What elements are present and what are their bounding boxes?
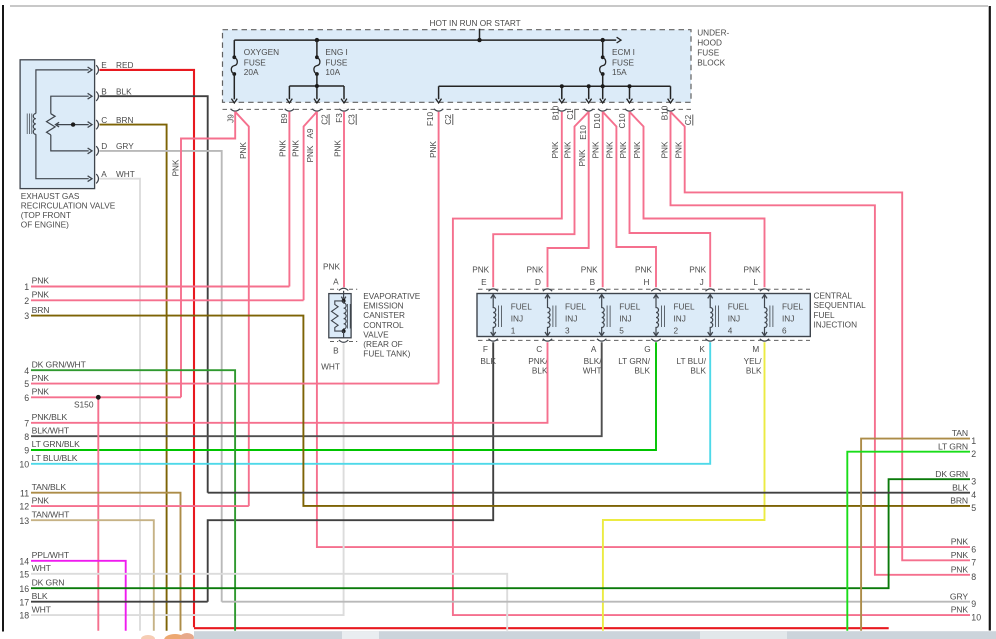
connector F10 C2 <box>434 109 443 111</box>
svg-text:J: J <box>700 278 704 287</box>
svg-text:3: 3 <box>565 327 570 336</box>
svg-text:15A: 15A <box>612 68 627 77</box>
photo finger blob 2 <box>164 634 186 639</box>
svg-text:HOOD: HOOD <box>697 39 722 48</box>
connector injector top pin J <box>706 289 715 291</box>
label PNK A9 <box>306 145 315 162</box>
svg-text:CANISTER: CANISTER <box>363 311 405 320</box>
taskbar light patch 1 <box>342 631 379 639</box>
svg-text:BLK: BLK <box>952 482 968 492</box>
connector EVAP A <box>339 288 348 290</box>
wire BLK left row 17 <box>31 601 208 603</box>
label F3 <box>335 113 344 123</box>
EGR pin C connector <box>96 120 98 129</box>
EVAP coil <box>344 301 347 331</box>
EVAP internal feed arrow <box>343 291 345 299</box>
svg-text:2: 2 <box>971 449 976 459</box>
junction eng T <box>315 84 319 88</box>
svg-text:PPL/WHT: PPL/WHT <box>32 550 70 560</box>
svg-text:INJ: INJ <box>565 315 577 324</box>
svg-text:PNK: PNK <box>951 564 969 574</box>
wire PNK J9 left branch <box>181 112 235 398</box>
svg-text:C: C <box>536 345 542 354</box>
page right border line <box>989 6 991 631</box>
svg-text:PNK: PNK <box>32 373 50 383</box>
wire WHT left row 15 <box>31 574 507 631</box>
svg-text:B10: B10 <box>551 105 560 120</box>
connector injector bottom pin C <box>543 339 552 341</box>
svg-text:PNK/: PNK/ <box>528 357 548 366</box>
label A9 <box>306 128 315 138</box>
svg-text:FUEL: FUEL <box>814 311 836 320</box>
wire TAN/BLK left row 11 <box>31 493 181 631</box>
wire PNK to injector B <box>602 112 604 287</box>
svg-text:F: F <box>483 345 488 354</box>
svg-text:D: D <box>101 142 107 151</box>
svg-text:FUSE: FUSE <box>612 59 635 68</box>
wire BLK/WHT injector A to row8 <box>31 342 602 436</box>
svg-text:FUSE: FUSE <box>325 59 348 68</box>
connector injector top pin E <box>489 289 498 291</box>
wire BRN from EGR C <box>100 125 167 631</box>
EVAP internal wire to B <box>343 331 345 338</box>
svg-text:PNK: PNK <box>635 266 652 275</box>
svg-text:9: 9 <box>971 599 976 609</box>
svg-text:TAN/WHT: TAN/WHT <box>32 509 71 519</box>
svg-text:A: A <box>333 278 339 287</box>
junction ECM I on bus <box>601 38 605 42</box>
svg-text:E10: E10 <box>579 125 588 140</box>
svg-text:HOT IN RUN OR START: HOT IN RUN OR START <box>430 19 521 28</box>
svg-text:6: 6 <box>24 393 29 403</box>
svg-text:13: 13 <box>19 516 29 526</box>
wire RED from EGR E <box>100 70 195 627</box>
svg-text:B9: B9 <box>280 113 289 123</box>
EGR pin D connector <box>96 146 98 155</box>
svg-text:PNK: PNK <box>32 387 50 397</box>
svg-text:PNK: PNK <box>278 140 287 157</box>
taskbar <box>194 631 996 639</box>
svg-text:J9: J9 <box>226 114 235 123</box>
svg-text:INJ: INJ <box>511 315 523 324</box>
svg-text:7: 7 <box>971 558 976 568</box>
connector injector top pin B <box>597 289 606 291</box>
svg-text:PNK: PNK <box>172 159 181 176</box>
EGR pin A connector <box>96 174 98 183</box>
svg-text:B: B <box>333 347 339 356</box>
svg-text:PNK: PNK <box>323 263 340 272</box>
svg-text:PNK: PNK <box>551 141 560 158</box>
label PNK b10c1 <box>551 141 560 158</box>
label PNK b10 diag <box>674 141 683 158</box>
EGR transformer core bars <box>27 114 32 135</box>
label PNK injH <box>606 141 615 158</box>
svg-text:PNK/BLK: PNK/BLK <box>32 412 68 422</box>
connector J9 <box>231 109 240 111</box>
svg-text:PNK: PNK <box>951 605 969 615</box>
svg-text:FUEL: FUEL <box>565 303 587 312</box>
fuel injector 6 coil <box>762 294 773 336</box>
connector row dashed line <box>223 108 692 110</box>
wire BLK injector F <box>208 342 494 601</box>
connector B10 C1 <box>557 109 566 111</box>
junction ecm T fuse <box>601 84 605 88</box>
svg-text:8: 8 <box>24 432 29 442</box>
svg-text:PNK: PNK <box>32 276 50 286</box>
label PNK F10 <box>429 141 438 158</box>
connector B10 C2 <box>666 109 675 111</box>
svg-text:BLK: BLK <box>32 591 48 601</box>
connector C2 engine <box>312 109 321 111</box>
wire hot feed stub <box>479 29 481 40</box>
EGR valve box <box>20 60 95 189</box>
svg-text:PNK: PNK <box>619 141 628 158</box>
wire PNK S150 drop <box>97 397 99 630</box>
connector injector bottom pin G <box>651 339 660 341</box>
svg-text:C: C <box>101 116 107 125</box>
wire PNK F3 to EVAP A <box>343 112 345 287</box>
under-hood fuse block box <box>223 30 692 103</box>
wire PNK C10 diag to injector L <box>630 112 765 287</box>
svg-text:15: 15 <box>19 569 29 579</box>
svg-text:BLK: BLK <box>116 88 132 97</box>
wire PPL/WHT left row 14 <box>31 561 126 631</box>
svg-text:INJ: INJ <box>619 315 631 324</box>
wire PNK/BLK injector C to row7 <box>31 342 548 423</box>
label B10 second <box>660 105 669 120</box>
CSFI box <box>477 294 810 337</box>
svg-text:INJ: INJ <box>674 315 686 324</box>
svg-text:F10: F10 <box>426 111 435 126</box>
junction ENG I on bus <box>315 38 319 42</box>
svg-text:ECM I: ECM I <box>612 48 635 57</box>
wire PNK left row 6 <box>31 396 181 398</box>
EVAP core bars <box>347 304 350 329</box>
wire PNK to injector H <box>603 112 656 287</box>
wire ecm fuse stem bottom and T-bar <box>439 74 671 86</box>
svg-text:C2: C2 <box>684 114 693 125</box>
label PNK c10 <box>619 141 628 158</box>
wire PNK left row 1 <box>31 286 289 288</box>
EGR internal wire pin B to resistor <box>51 96 89 114</box>
wire PNK C10 to injector J <box>630 112 711 287</box>
wire BRN left row 3 to right row 5 <box>31 316 970 506</box>
junction ecm T b10 <box>560 84 564 88</box>
svg-text:FUEL: FUEL <box>728 303 750 312</box>
wire PNK left row 2 <box>31 299 304 301</box>
wire ecm T drops <box>439 86 671 99</box>
svg-text:(REAR OF: (REAR OF <box>363 340 402 349</box>
wire RED bottom run <box>194 627 889 629</box>
label B10 c1 <box>551 105 560 120</box>
connector injector bottom pin A <box>597 339 606 341</box>
wire DK GRN/WHT left row 4 <box>31 370 235 631</box>
svg-text:PNK: PNK <box>239 142 248 159</box>
svg-text:LT BLU/BLK: LT BLU/BLK <box>32 453 78 463</box>
svg-text:A: A <box>101 170 107 179</box>
EVAP bottom junction dot <box>342 329 346 333</box>
svg-text:D: D <box>535 278 541 287</box>
svg-text:PNK: PNK <box>306 145 315 162</box>
svg-text:OXYGEN: OXYGEN <box>244 48 279 57</box>
svg-text:ENG I: ENG I <box>325 48 347 57</box>
svg-text:8: 8 <box>971 572 976 582</box>
junction S150 <box>96 395 101 400</box>
wire TAN/WHT left row 13 <box>31 520 154 631</box>
svg-text:PNK: PNK <box>633 141 642 158</box>
svg-text:LT BLU/: LT BLU/ <box>677 357 707 366</box>
connector injector top pin D <box>543 289 552 291</box>
label PNK J9 left <box>172 159 181 176</box>
EVAP resistor loop <box>332 301 344 331</box>
svg-text:PNK: PNK <box>606 141 615 158</box>
fuse OXYGEN 20A <box>231 55 237 76</box>
wire eng T drops <box>289 86 344 99</box>
EGR pin E connector <box>96 65 98 74</box>
svg-text:11: 11 <box>20 488 29 498</box>
svg-text:20A: 20A <box>244 68 259 77</box>
label PNK c10diag <box>633 141 642 158</box>
svg-text:F3: F3 <box>335 113 344 123</box>
connector D10 <box>584 109 593 111</box>
svg-text:PNK: PNK <box>292 140 301 157</box>
svg-text:PNK: PNK <box>744 266 761 275</box>
svg-text:GRY: GRY <box>116 142 134 151</box>
EGR pin B connector <box>96 92 98 101</box>
svg-text:2: 2 <box>24 296 29 306</box>
svg-text:12: 12 <box>19 502 29 512</box>
svg-text:BLK: BLK <box>532 367 548 376</box>
connector EVAP B <box>339 340 348 342</box>
svg-text:C2: C2 <box>444 114 453 125</box>
svg-text:PNK: PNK <box>32 495 50 505</box>
svg-text:SEQUENTIAL: SEQUENTIAL <box>814 301 867 310</box>
svg-text:FUEL: FUEL <box>511 303 533 312</box>
label D10 <box>593 113 602 128</box>
connector injector bottom pin K <box>706 339 715 341</box>
svg-text:FUSE: FUSE <box>244 59 266 68</box>
wire YEL/BLK injector M <box>603 342 765 630</box>
svg-text:PNK: PNK <box>581 266 598 275</box>
svg-text:C1: C1 <box>566 109 575 120</box>
label PNK d10 <box>578 149 587 166</box>
wire TAN right row 1 <box>861 439 970 631</box>
label PNK F3 <box>334 140 343 157</box>
svg-text:CENTRAL: CENTRAL <box>814 292 853 301</box>
svg-text:BRN: BRN <box>950 496 968 506</box>
svg-text:PNK: PNK <box>32 290 50 300</box>
label F10 <box>426 111 435 126</box>
svg-text:4: 4 <box>24 366 29 376</box>
wire oxygen fuse stem top <box>233 40 235 57</box>
svg-text:BLK: BLK <box>634 367 650 376</box>
svg-text:5: 5 <box>24 379 29 389</box>
svg-text:FUEL: FUEL <box>782 303 804 312</box>
fuel injector 4 coil <box>708 294 719 336</box>
wire LT GRN/BLK injector G to row9 <box>31 342 656 450</box>
svg-text:WHT: WHT <box>32 604 52 614</box>
svg-text:PNK: PNK <box>578 149 587 166</box>
wire PNK left row 5 <box>31 383 439 385</box>
EGR internal wire pin E to coil <box>36 70 89 114</box>
svg-text:14: 14 <box>19 556 29 566</box>
wire PNK J9 diagonal branch <box>235 112 249 506</box>
svg-text:PNK: PNK <box>429 141 438 158</box>
label C2 second <box>684 114 693 125</box>
svg-text:GRY: GRY <box>950 591 968 601</box>
svg-text:WHT: WHT <box>321 363 340 372</box>
EGR transformer coil <box>33 114 36 135</box>
svg-text:A9: A9 <box>306 128 315 138</box>
svg-text:6: 6 <box>782 327 787 336</box>
EGR resistor zigzag <box>47 114 56 135</box>
wire BLK from EGR B <box>100 96 208 493</box>
svg-text:PNK: PNK <box>689 266 706 275</box>
connector B9 <box>285 109 294 111</box>
wire PNK B9 to row1 <box>288 112 290 287</box>
label PNK C2 diag <box>292 140 301 157</box>
svg-text:TAN: TAN <box>952 428 968 438</box>
EVAP canister valve box <box>329 294 351 338</box>
wire PNK C2 diagonal to row2 <box>304 112 317 300</box>
page top border line <box>10 5 988 7</box>
svg-text:C10: C10 <box>618 113 627 128</box>
svg-text:PNK: PNK <box>334 140 343 157</box>
label B9 <box>280 113 289 123</box>
svg-text:BLK: BLK <box>746 367 762 376</box>
bus wire inside fuse block <box>234 39 616 41</box>
svg-text:18: 18 <box>19 611 29 621</box>
svg-text:(TOP FRONT: (TOP FRONT <box>21 211 71 220</box>
wire LT BLU/BLK injector K to row10 <box>31 342 710 464</box>
svg-text:FUSE: FUSE <box>697 49 720 58</box>
svg-text:PNK: PNK <box>951 537 969 547</box>
svg-text:WHT: WHT <box>32 563 52 573</box>
svg-text:10: 10 <box>971 612 981 622</box>
label C10 <box>618 113 627 128</box>
svg-text:INJ: INJ <box>728 315 740 324</box>
svg-text:16: 16 <box>19 584 29 594</box>
wire PNK F10 to row5 <box>438 112 440 384</box>
wire PNK B10 diag to right row7 <box>671 112 971 561</box>
svg-text:FUEL: FUEL <box>619 303 641 312</box>
svg-text:1: 1 <box>24 282 29 292</box>
svg-text:EMISSION: EMISSION <box>363 302 403 311</box>
connector C10 <box>625 109 634 111</box>
CSFI top dashed line <box>478 289 810 340</box>
label C1 <box>566 109 575 120</box>
svg-text:BRN: BRN <box>116 116 133 125</box>
EGR internal wire coil to pin A <box>36 134 89 178</box>
svg-text:PNK: PNK <box>527 266 544 275</box>
svg-text:C3: C3 <box>348 114 357 125</box>
svg-text:5: 5 <box>971 503 976 513</box>
taskbar light patch 2 <box>700 631 787 639</box>
arrows ecm drops <box>436 99 674 103</box>
page left border line <box>2 5 4 632</box>
wire PNK B10C1 to right row10 <box>453 112 970 615</box>
svg-text:VALVE: VALVE <box>363 330 389 339</box>
svg-text:PNK: PNK <box>592 141 601 158</box>
svg-text:9: 9 <box>24 446 29 456</box>
fuel injector 2 coil <box>654 294 665 336</box>
wire oxygen fuse stem bottom <box>233 74 235 99</box>
connector injector top pin H <box>651 289 660 291</box>
svg-text:5: 5 <box>619 327 624 336</box>
connector injector bottom pin F <box>489 339 498 341</box>
svg-text:FUEL TANK): FUEL TANK) <box>363 350 410 359</box>
wire PNK A9 to right row6 <box>317 112 970 547</box>
svg-text:4: 4 <box>728 327 733 336</box>
wire GRY right row 9 <box>222 601 970 603</box>
svg-text:PNK: PNK <box>660 141 669 158</box>
svg-text:BRN: BRN <box>32 305 50 315</box>
label C2 f10 <box>444 114 453 125</box>
svg-text:FUEL: FUEL <box>674 303 696 312</box>
svg-text:BLK/: BLK/ <box>584 357 603 366</box>
svg-text:PNK: PNK <box>951 550 969 560</box>
photo finger blob 3 <box>180 633 194 639</box>
label C3 <box>348 114 357 125</box>
svg-text:DK GRN: DK GRN <box>935 469 968 479</box>
svg-text:B: B <box>101 88 107 97</box>
label J9 <box>226 114 235 123</box>
wire PNK B10 to right row8 <box>671 112 971 575</box>
arrow oxygen fuse to J9 <box>231 99 237 103</box>
wire eng fuse stem bottom and T-bar <box>289 74 344 86</box>
svg-text:TAN/BLK: TAN/BLK <box>32 482 67 492</box>
wire PNK left row 12 <box>31 505 249 507</box>
svg-text:1: 1 <box>511 327 516 336</box>
label PNK injB <box>592 141 601 158</box>
wire WHT from EGR A <box>100 179 141 631</box>
wire BLK right row 4 <box>208 492 970 494</box>
junction hot feed on bus <box>477 38 481 42</box>
svg-text:CONTROL: CONTROL <box>363 321 404 330</box>
svg-text:INJECTION: INJECTION <box>814 321 858 330</box>
svg-text:4: 4 <box>971 490 976 500</box>
svg-text:RECIRCULATION VALVE: RECIRCULATION VALVE <box>21 202 116 211</box>
svg-text:L: L <box>753 278 758 287</box>
label C2 engine <box>321 114 330 125</box>
EVAP connector dashes <box>330 289 357 341</box>
label PNK B9 <box>278 140 287 157</box>
wire GRY from EGR D <box>100 151 222 602</box>
wire eng fuse stem top <box>316 40 318 57</box>
svg-text:DK GRN: DK GRN <box>32 577 65 587</box>
connector injector top pin L <box>760 289 769 291</box>
svg-text:10: 10 <box>19 459 29 469</box>
svg-text:YEL/: YEL/ <box>744 357 763 366</box>
label PNK J9 diag <box>239 142 248 159</box>
connector C10 left <box>598 109 607 111</box>
svg-text:H: H <box>644 278 650 287</box>
svg-text:7: 7 <box>24 418 29 428</box>
svg-text:M: M <box>752 345 759 354</box>
bus arrow <box>617 37 621 43</box>
svg-text:PNK: PNK <box>674 141 683 158</box>
svg-text:BLK/WHT: BLK/WHT <box>32 425 70 435</box>
svg-text:17: 17 <box>19 597 29 607</box>
svg-text:2: 2 <box>674 327 679 336</box>
fuel injector 5 coil <box>599 294 610 336</box>
svg-text:PNK: PNK <box>564 141 573 158</box>
junction ecm T c10 <box>628 84 632 88</box>
svg-text:E: E <box>481 278 487 287</box>
svg-text:LT GRN: LT GRN <box>938 441 968 451</box>
wire DK GRN row 16 to right row 3 <box>31 479 970 588</box>
svg-text:DK GRN/WHT: DK GRN/WHT <box>32 359 87 369</box>
